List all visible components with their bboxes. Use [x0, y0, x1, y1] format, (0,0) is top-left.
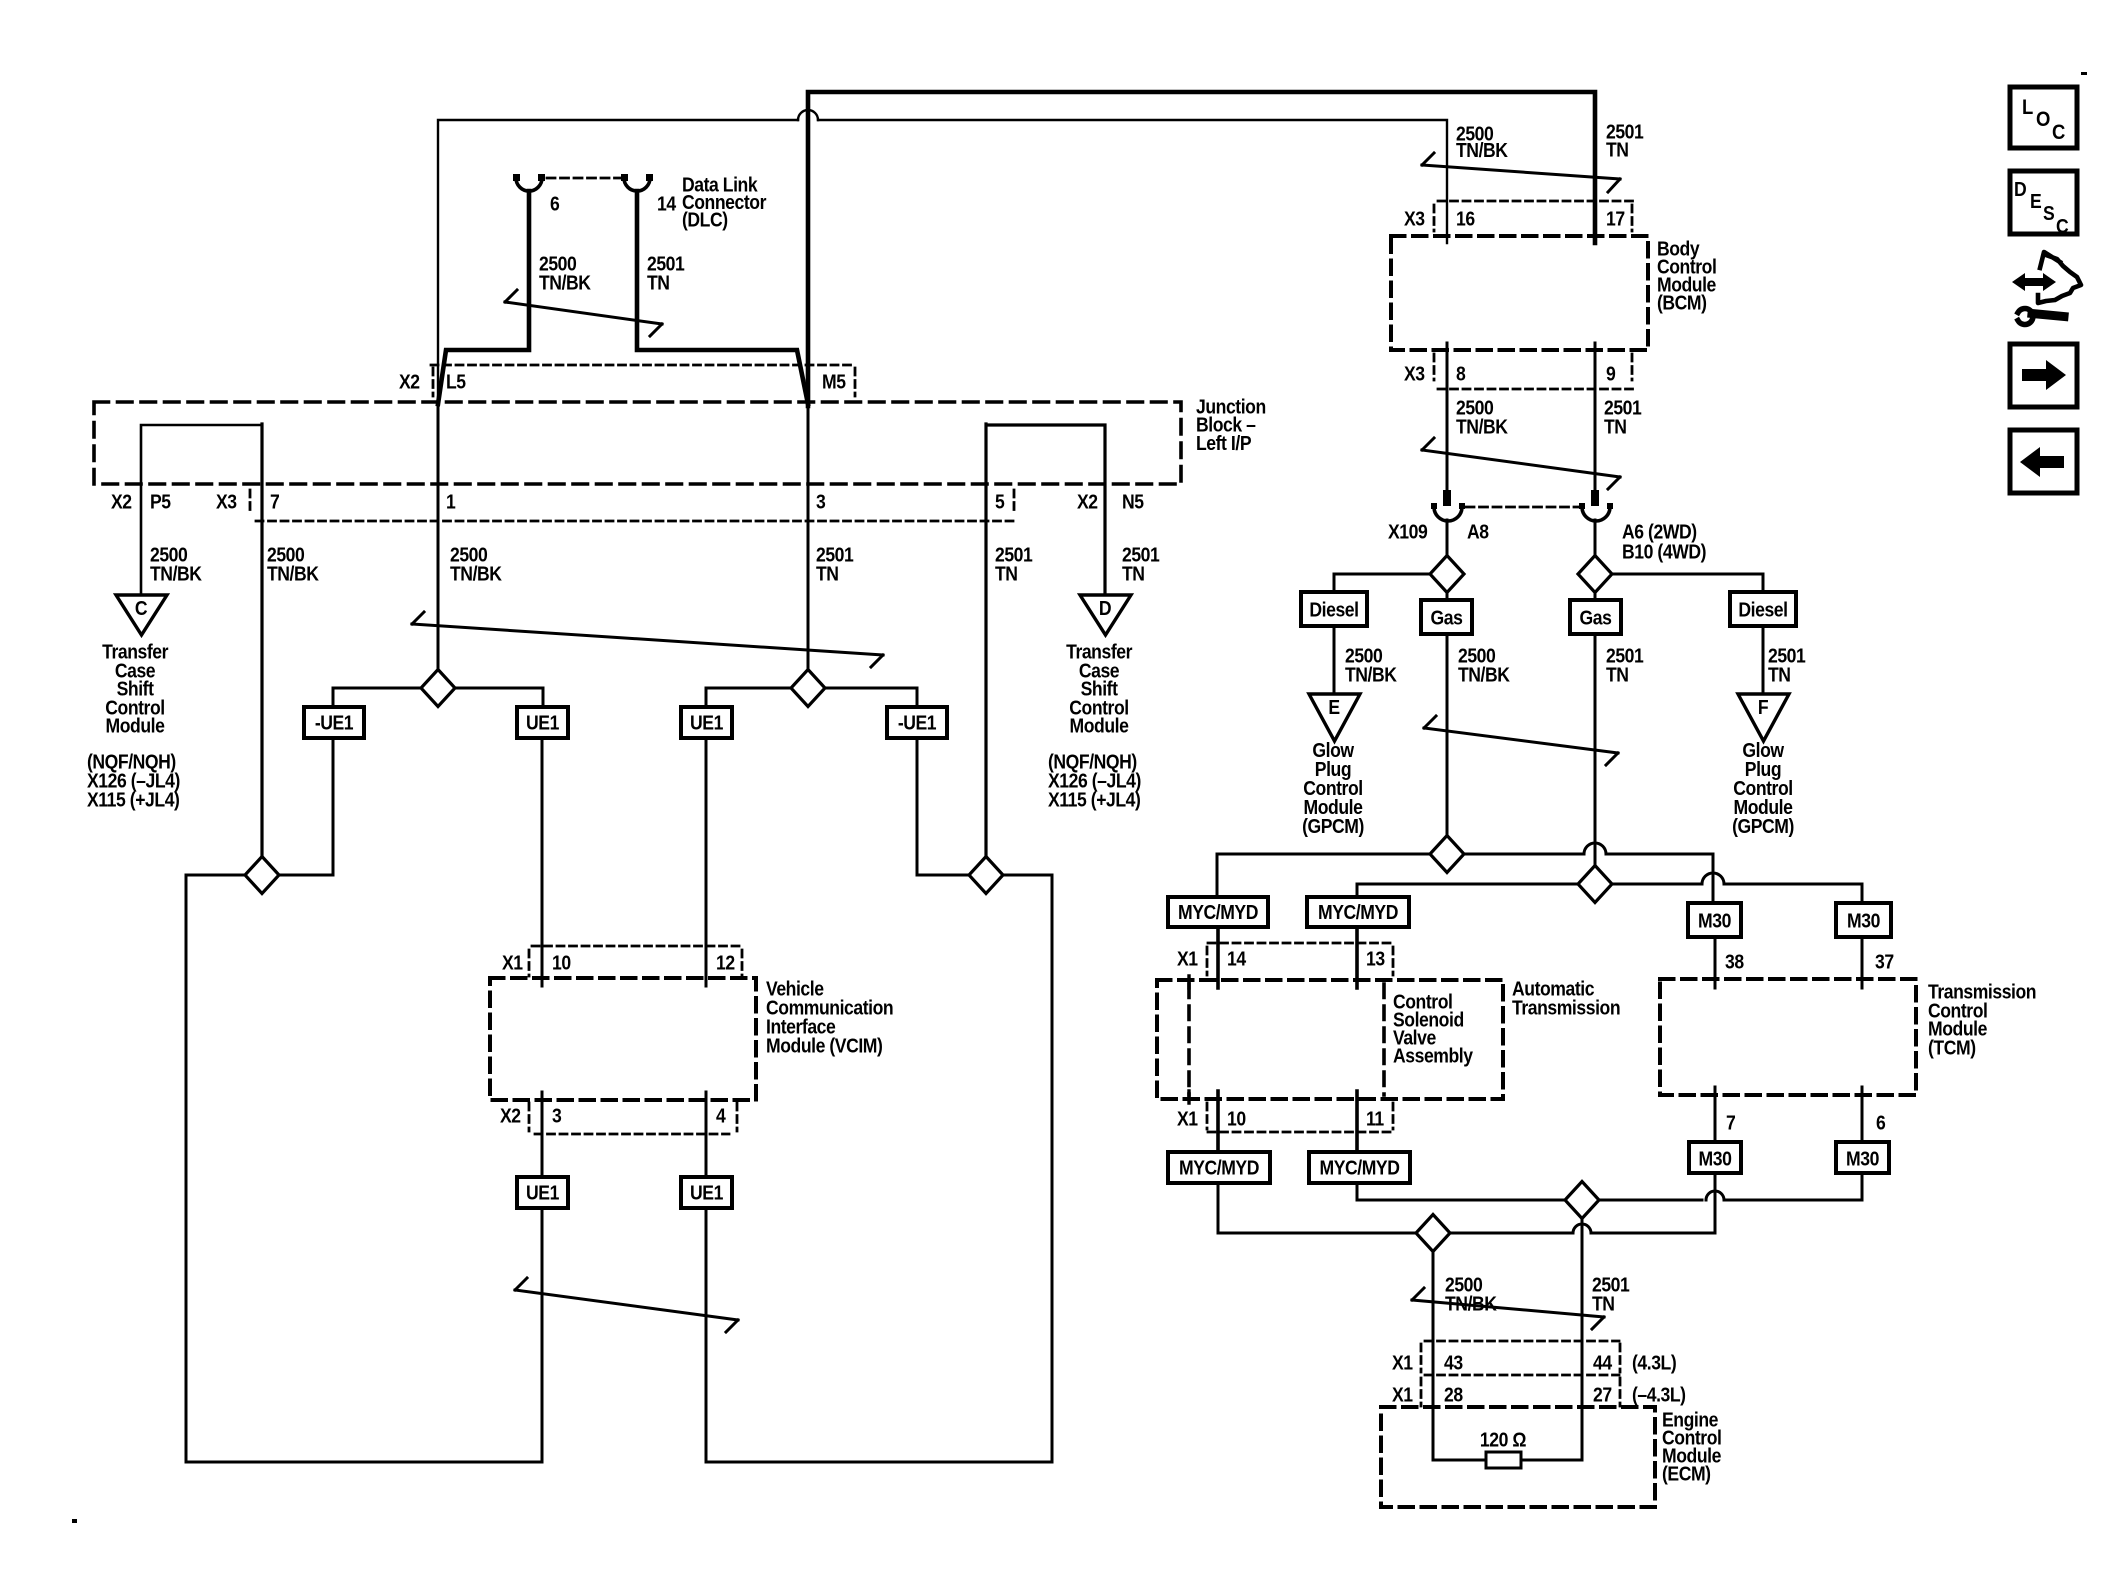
splice S4: [969, 857, 1003, 894]
svg-text:-UE1: -UE1: [315, 711, 353, 733]
svg-text:17: 17: [1606, 207, 1625, 229]
fuse box MYC/MYD (2): [1307, 897, 1409, 927]
resistor 120 ohm: [1486, 1452, 1521, 1468]
wire BCM pin 9 down to X109: [1594, 343, 1597, 490]
wire DLC pin 14 to junction block M5 (2501 TN): [637, 191, 808, 404]
svg-text:7: 7: [1726, 1111, 1735, 1133]
svg-text:TN: TN: [1604, 415, 1627, 437]
option box Gas (1): [1421, 600, 1472, 634]
off-page triangle E: [1309, 694, 1360, 741]
svg-text:4: 4: [716, 1104, 726, 1126]
svg-text:TN/BK: TN/BK: [1345, 663, 1397, 685]
svg-text:X115 (+JL4): X115 (+JL4): [87, 788, 180, 810]
wire S9 right to M30(4): [1724, 1173, 1862, 1200]
off-page triangle C: [116, 595, 167, 635]
inline connector X109 dashed face: [1466, 506, 1578, 509]
svg-text:6: 6: [550, 192, 559, 214]
stray mark bottom left: [72, 1519, 77, 1523]
connector X3 strip (bottom) end ticks: [1434, 354, 1632, 380]
svg-text:X109: X109: [1388, 520, 1427, 542]
wire X109 A6 to splice S6: [1594, 520, 1597, 574]
wire 2501 TN top bus (thick): [808, 92, 1595, 406]
svg-text:A6 (2WD): A6 (2WD): [1622, 520, 1697, 542]
splice S3: [245, 857, 279, 894]
icon wrench: [2032, 314, 2064, 317]
wire Gas(1) down to splice S7: [1446, 634, 1449, 854]
junction block internal loop right (pin 5 to N5): [988, 425, 1105, 595]
svg-text:10: 10: [1227, 1107, 1246, 1129]
fuse box MYC/MYD (4): [1309, 1152, 1410, 1183]
icon box arrow right: [2010, 344, 2077, 407]
inline connector X109 female cup A8: [1434, 507, 1462, 521]
svg-text:C: C: [2056, 215, 2069, 237]
fuse box MYC/MYD (3): [1168, 1152, 1270, 1183]
connector X1 strip dotted line: [532, 945, 742, 948]
wire pin7 / -UE1 loop to VCIM return (left big loop): [186, 875, 542, 1462]
connector X1 strip end ticks (row 1): [1421, 1344, 1620, 1372]
wire M30(2) to TCM pin 37: [1861, 937, 1864, 988]
AT left compartment stubs: [1187, 976, 1190, 1103]
svg-text:14: 14: [657, 192, 677, 214]
ECM module dashed box: [1381, 1407, 1655, 1507]
svg-text:13: 13: [1366, 947, 1385, 969]
twisted pair arrow (below junction block): [412, 612, 883, 667]
icon curved pointer outline: [2038, 252, 2081, 303]
svg-text:TN: TN: [647, 271, 670, 293]
svg-text:M5: M5: [822, 370, 846, 392]
svg-text:5: 5: [995, 490, 1004, 512]
svg-text:6: 6: [1876, 1111, 1885, 1133]
connector X2 strip end ticks: [433, 368, 855, 396]
twisted pair arrow (below BCM): [1422, 438, 1620, 489]
wire ECM internal to resistor right: [1521, 1459, 1582, 1462]
wire BCM pin 8 down to X109: [1446, 343, 1449, 490]
fuse box M30 (3): [1689, 1142, 1741, 1173]
svg-text:UE1: UE1: [526, 711, 559, 733]
svg-text:16: 16: [1456, 207, 1475, 229]
CSVA dashed divider: [1382, 984, 1386, 1095]
svg-text:(–4.3L): (–4.3L): [1632, 1383, 1686, 1405]
svg-text:(GPCM): (GPCM): [1302, 815, 1364, 837]
wire S8 left to MYC/MYD(2): [1357, 884, 1702, 897]
wire S10 right up to M30(3): [1591, 1173, 1715, 1233]
fuse box -UE1 (1): [304, 707, 364, 738]
svg-text:14: 14: [1227, 947, 1247, 969]
svg-text:(GPCM): (GPCM): [1732, 815, 1794, 837]
connector X1 strip end ticks: [1207, 947, 1393, 975]
wire UE1(2) to VCIM pin 10: [541, 738, 544, 986]
option box Diesel (1): [1301, 592, 1367, 626]
connector X2 strip (top) dotted line: [431, 364, 855, 367]
wire TCM pin 6 to M30(4): [1861, 1087, 1864, 1142]
connector X2 strip dotted line: [535, 1133, 729, 1136]
svg-text:38: 38: [1725, 950, 1744, 972]
svg-text:X3: X3: [216, 490, 237, 512]
wire hop of 2500 horizontal over 2501 at x=1595: [1584, 843, 1606, 854]
DLC connector dashed face: [547, 177, 621, 180]
VCIM module dashed box: [490, 978, 756, 1100]
wire VCIM pin 4 to UE1(6): [705, 1092, 708, 1177]
splice S10: [1416, 1215, 1450, 1252]
svg-text:8: 8: [1456, 362, 1465, 384]
svg-text:(TCM): (TCM): [1928, 1036, 1976, 1058]
svg-text:120 Ω: 120 Ω: [1480, 1428, 1526, 1450]
wire L5 to pin 1 to splice: [437, 404, 440, 688]
wire S9 down to ECM (2501 TN): [1581, 1200, 1584, 1460]
svg-text:C: C: [135, 597, 148, 619]
svg-text:TN: TN: [1606, 663, 1629, 685]
wire AT pin 10 to MYC/MYD(3): [1216, 1091, 1220, 1152]
svg-text:X2: X2: [500, 1104, 521, 1126]
svg-text:9: 9: [1606, 362, 1615, 384]
inline connector X109 male bar A6/B10: [1591, 490, 1599, 506]
svg-text:X2: X2: [1077, 490, 1098, 512]
AT internal dashed divider (left compartment): [1187, 984, 1191, 1095]
svg-text:M30: M30: [1847, 909, 1880, 931]
svg-text:TN/BK: TN/BK: [150, 562, 202, 584]
svg-text:TN/BK: TN/BK: [267, 562, 319, 584]
wire 2500 TN/BK top bus (thin): [438, 120, 1447, 406]
off-page triangle D: [1080, 595, 1131, 635]
svg-text:N5: N5: [1122, 490, 1144, 512]
inline connector X109 male bar A8: [1443, 490, 1451, 506]
fuse box -UE1 (4): [887, 707, 947, 738]
svg-text:12: 12: [716, 951, 735, 973]
svg-text:TN: TN: [1768, 663, 1791, 685]
wire MYC/MYD(1) to AT pin 14: [1216, 927, 1220, 988]
svg-text:37: 37: [1875, 950, 1894, 972]
twisted pair arrow (middle right): [1424, 716, 1618, 765]
svg-text:M30: M30: [1699, 1147, 1732, 1169]
svg-text:11: 11: [1366, 1107, 1384, 1129]
stray mark top right: [2081, 72, 2087, 75]
svg-text:UE1: UE1: [690, 711, 723, 733]
svg-text:27: 27: [1593, 1383, 1612, 1405]
svg-text:X1: X1: [1392, 1383, 1413, 1405]
connector X1 strip (AT top) dotted line: [1208, 942, 1393, 945]
connector X3 strip end ticks: [1434, 205, 1632, 231]
svg-text:TN/BK: TN/BK: [450, 562, 502, 584]
svg-text:(ECM): (ECM): [1662, 1462, 1711, 1484]
svg-text:1: 1: [446, 490, 455, 512]
svg-text:X2: X2: [399, 370, 420, 392]
splice S9: [1565, 1182, 1599, 1219]
svg-text:B10 (4WD): B10 (4WD): [1622, 540, 1706, 562]
connector X3 strip (bottom) dotted line: [256, 520, 1014, 523]
wire Gas(2) down to splice S8: [1594, 634, 1597, 884]
svg-text:X1: X1: [1392, 1351, 1413, 1373]
svg-text:X1: X1: [1177, 1107, 1198, 1129]
svg-text:Diesel: Diesel: [1738, 598, 1787, 620]
svg-text:Module: Module: [106, 714, 165, 736]
wire M5 to pin 3 to splice: [807, 404, 810, 688]
wire X109 A8 to splice S5: [1446, 520, 1449, 574]
wire UE1(3) to VCIM pin 12: [705, 738, 708, 986]
splice S1: [421, 670, 455, 707]
wire ECM internal to resistor left: [1433, 1459, 1486, 1462]
junction block internal loop left (P5 to pin 7): [141, 425, 260, 595]
wire Diesel(1) to triangle E: [1333, 626, 1336, 694]
svg-text:Diesel: Diesel: [1309, 598, 1358, 620]
connector X3 strip (bottom) dotted line: [1438, 388, 1634, 391]
splice S8: [1578, 866, 1612, 903]
fuse box UE1 (3): [681, 707, 732, 738]
svg-text:MYC/MYD: MYC/MYD: [1318, 901, 1398, 923]
wire S8 right to M30(2): [1724, 884, 1862, 903]
svg-text:O: O: [2036, 108, 2050, 131]
svg-text:TN: TN: [1592, 1292, 1615, 1314]
svg-text:D: D: [2014, 178, 2026, 200]
twisted pair arrow (above BCM): [1422, 153, 1620, 192]
svg-text:L: L: [2022, 96, 2033, 119]
svg-text:S: S: [2043, 202, 2054, 224]
option box Gas (2): [1570, 600, 1621, 634]
wire hop of 2500 bus over 2501 vertical at x=808: [798, 110, 818, 120]
wire MYC/MYD(3) to splice S10 (2500): [1218, 1183, 1573, 1233]
DLC pin 14 terminal cup: [624, 178, 650, 191]
wire S7 right to M30(1): [1606, 854, 1713, 903]
svg-text:X3: X3: [1404, 362, 1425, 384]
splice S2: [791, 670, 825, 707]
fuse box UE1 (5): [517, 1177, 568, 1208]
icon double arrow: [2012, 273, 2056, 291]
svg-text:Left I/P: Left I/P: [1196, 432, 1251, 454]
wire splice row right horizontal: [706, 688, 917, 707]
BCM module dashed box: [1391, 236, 1648, 350]
wire S7 left to MYC/MYD(1): [1217, 854, 1584, 897]
wire DLC pin 6 to junction block L5 (2500 TN/BK): [438, 191, 529, 404]
wire hop of 2501 horizontal over M30(3) wire at x=1715: [1706, 1191, 1724, 1200]
fuse box M30 (2): [1836, 903, 1891, 937]
svg-text:Module: Module: [1070, 714, 1129, 736]
svg-text:Gas: Gas: [1431, 606, 1463, 628]
wire splice row left horizontal: [333, 688, 543, 707]
fuse box UE1 (2): [517, 707, 568, 738]
wire VCIM pin 3 to UE1(5): [541, 1092, 544, 1177]
svg-text:E: E: [1328, 696, 1339, 718]
svg-text:TN/BK: TN/BK: [1456, 139, 1508, 161]
wire splice S6 to Diesel(2): [1595, 574, 1763, 592]
svg-text:D: D: [1099, 597, 1111, 619]
fuse box M30 (1): [1688, 903, 1741, 937]
wire splice S5 to Gas(1): [1446, 574, 1449, 600]
svg-text:TN/BK: TN/BK: [1458, 663, 1510, 685]
svg-text:(4.3L): (4.3L): [1632, 1351, 1676, 1373]
svg-text:A8: A8: [1467, 520, 1489, 542]
fuse box UE1 (6): [681, 1177, 732, 1208]
wire hop of 2500 horizontal over 2501 at x=1582: [1573, 1224, 1591, 1233]
wire splice S5 to Diesel(1): [1334, 574, 1447, 592]
svg-text:44: 44: [1593, 1351, 1613, 1373]
svg-text:TN: TN: [816, 562, 839, 584]
svg-text:MYC/MYD: MYC/MYD: [1320, 1156, 1400, 1178]
wire splice S6 to Gas(2): [1594, 574, 1597, 600]
inline connector X109 female cup A6/B10: [1582, 507, 1610, 521]
svg-text:TN: TN: [1606, 138, 1629, 160]
svg-text:43: 43: [1444, 1351, 1463, 1373]
svg-text:X1: X1: [1177, 947, 1198, 969]
svg-text:TN: TN: [1122, 562, 1145, 584]
svg-text:TN/BK: TN/BK: [1456, 415, 1508, 437]
svg-text:Gas: Gas: [1580, 606, 1612, 628]
svg-text:Transmission: Transmission: [1512, 996, 1620, 1018]
svg-text:3: 3: [816, 490, 825, 512]
icon box LOC: [2010, 87, 2077, 148]
fuse box M30 (4): [1836, 1142, 1889, 1173]
svg-text:L5: L5: [446, 370, 466, 392]
svg-text:(DLC): (DLC): [682, 208, 728, 230]
connector X3 strip (top) dotted line: [1438, 200, 1634, 203]
wire AT pin 11 to MYC/MYD(4): [1355, 1091, 1359, 1152]
twisted pair arrow (above ECM): [1412, 1288, 1604, 1329]
svg-text:-UE1: -UE1: [898, 711, 936, 733]
svg-text:(BCM): (BCM): [1657, 291, 1707, 313]
svg-text:3: 3: [552, 1104, 561, 1126]
TCM module dashed box: [1660, 979, 1916, 1095]
connector X1 strip end ticks: [529, 950, 742, 976]
svg-text:P5: P5: [150, 490, 171, 512]
connector X2 strip end ticks: [529, 1103, 737, 1131]
fuse box MYC/MYD (1): [1168, 897, 1268, 927]
svg-text:X1: X1: [502, 951, 523, 973]
icon box arrow left: [2010, 430, 2077, 493]
svg-text:10: 10: [552, 951, 571, 973]
Automatic Transmission dashed box: [1157, 980, 1503, 1099]
svg-text:X115 (+JL4): X115 (+JL4): [1048, 788, 1141, 810]
junction block dashed box: [94, 402, 1181, 484]
svg-text:28: 28: [1444, 1383, 1463, 1405]
DLC pin 6 terminal cup: [516, 178, 542, 191]
svg-text:MYC/MYD: MYC/MYD: [1178, 901, 1258, 923]
svg-text:7: 7: [270, 490, 279, 512]
icon box DESC: [2010, 171, 2077, 234]
svg-text:X3: X3: [1404, 207, 1425, 229]
splice S7: [1430, 836, 1464, 873]
wire pin5 / -UE1 loop to VCIM return (right big loop): [706, 875, 1052, 1462]
wire M30(1) to TCM pin 38: [1714, 937, 1717, 988]
connector X1 strip (row 28/27) dotted line: [1425, 1374, 1619, 1377]
wire -UE1(4) down to splice S4: [917, 738, 986, 875]
twisted pair arrow (DLC drop): [505, 290, 662, 336]
svg-text:M30: M30: [1698, 909, 1731, 931]
connector X3 strip end ticks: [250, 490, 1014, 514]
wire S10 down to ECM (2500 TN/BK): [1432, 1233, 1435, 1460]
connector X1 strip end ticks (row 2): [1421, 1378, 1620, 1406]
connector X1 strip (row 43/44) dotted line: [1425, 1340, 1619, 1343]
splice S6: [1578, 556, 1612, 593]
svg-text:F: F: [1758, 696, 1768, 718]
svg-text:TN: TN: [995, 562, 1018, 584]
wire hop of 2501 horizontal over M30 wire at x=1713: [1702, 873, 1724, 884]
wire Diesel(2) to triangle F: [1762, 626, 1765, 694]
svg-text:UE1: UE1: [690, 1181, 723, 1203]
off-page triangle F: [1738, 694, 1789, 741]
wire MYC/MYD(4) to splice S9 (2501): [1357, 1183, 1702, 1200]
svg-text:M30: M30: [1846, 1147, 1879, 1169]
wire -UE1(1) down to splice S3: [262, 738, 333, 875]
option box Diesel (2): [1730, 592, 1796, 626]
svg-text:Assembly: Assembly: [1393, 1044, 1474, 1066]
svg-text:UE1: UE1: [526, 1181, 559, 1203]
connector X1 strip (AT bottom) dotted line: [1208, 1131, 1393, 1134]
svg-text:Module (VCIM): Module (VCIM): [766, 1034, 883, 1056]
svg-text:TN/BK: TN/BK: [539, 271, 591, 293]
svg-text:MYC/MYD: MYC/MYD: [1179, 1156, 1259, 1178]
wire MYC/MYD(2) to AT pin 13: [1355, 927, 1359, 988]
splice S5: [1430, 556, 1464, 593]
connector X1 strip (AT bottom) end ticks: [1207, 1103, 1393, 1129]
twisted pair arrow (below VCIM): [515, 1278, 738, 1332]
wire TCM pin 7 to M30(3): [1714, 1087, 1717, 1142]
svg-text:X2: X2: [111, 490, 132, 512]
svg-text:C: C: [2052, 121, 2065, 144]
svg-text:E: E: [2030, 190, 2041, 212]
